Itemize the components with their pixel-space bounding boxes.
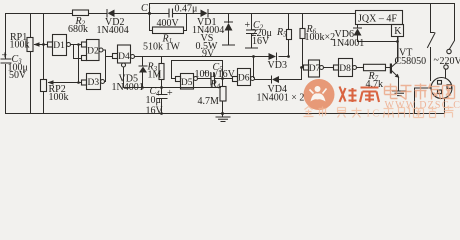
svg-text:D6: D6 — [238, 74, 250, 84]
socket outlet — [431, 78, 452, 99]
resistor R5 — [276, 14, 292, 57]
watermark text 全球最大IC采购网站 — [304, 107, 362, 118]
zener diode VS — [196, 14, 235, 60]
gate D4 — [113, 45, 135, 67]
wire: feedback link over D5 and C5 — [172, 61, 223, 79]
svg-text:50V: 50V — [9, 70, 27, 81]
ground — [216, 112, 230, 122]
svg-text:1M: 1M — [148, 70, 162, 81]
node: C4 on ground rail — [160, 112, 163, 115]
diode VD5 — [112, 57, 148, 94]
svg-text:D2: D2 — [87, 47, 99, 57]
svg-text:I C: I C — [367, 109, 380, 120]
terminal: mains input lower — [444, 65, 448, 78]
svg-text:VD3: VD3 — [268, 60, 287, 71]
resistor R1 parallel branch — [143, 14, 187, 53]
diode VD2 — [97, 10, 129, 37]
svg-text:JQX – 4F: JQX – 4F — [358, 13, 397, 24]
wire: left supply rail with gap for C3 — [5, 14, 7, 114]
svg-text:100k×2: 100k×2 — [305, 32, 336, 43]
resistor R4 — [198, 79, 227, 114]
gate D8 — [334, 59, 357, 77]
svg-text:D7: D7 — [309, 64, 321, 74]
svg-text:+: + — [2, 51, 8, 62]
gate D3 — [82, 74, 105, 90]
transistor VT — [390, 37, 426, 91]
wire: socket bottom lead — [444, 98, 446, 113]
wire: D4 output down to timing bus — [123, 67, 125, 88]
wire: RP1 wiper riser from rail down to RP2 — [43, 14, 45, 80]
watermark text WWW.DZSC.COM — [385, 100, 460, 111]
potentiometer RP2 — [41, 80, 79, 114]
gate D5 — [176, 74, 198, 90]
svg-text:D3: D3 — [88, 78, 100, 88]
wire: D2 out and D3 out to D4 input riser — [103, 50, 113, 82]
svg-text:16V: 16V — [252, 36, 270, 47]
svg-text:R5: R5 — [276, 27, 287, 39]
ground — [393, 91, 407, 96]
svg-text:400V: 400V — [157, 18, 180, 29]
svg-text:4.7M: 4.7M — [198, 96, 220, 107]
watermark text 电子市场网 — [385, 84, 455, 100]
svg-text:+: + — [245, 20, 251, 31]
label: mains voltage — [434, 55, 460, 67]
resistor R3 — [147, 57, 165, 88]
svg-text:R4: R4 — [210, 79, 221, 91]
svg-text:C58050: C58050 — [395, 56, 427, 67]
wire: logic bus from D4 to R5 leg — [135, 56, 289, 58]
node: VD3 tap — [252, 55, 255, 58]
wire: timing bus above ground — [124, 86, 221, 89]
capacitor C5 — [195, 62, 236, 86]
svg-text:1N4001: 1N4001 — [332, 38, 364, 49]
capacitor C3 — [1, 51, 28, 82]
wire: drop from bus to D6 output node — [253, 57, 255, 78]
relay coil K — [392, 25, 404, 38]
svg-text:1N4001 × 2: 1N4001 × 2 — [257, 93, 305, 104]
wire: mains feed line along top to right edge — [150, 4, 455, 50]
potentiometer RP1 — [10, 14, 44, 114]
svg-text:+: + — [167, 88, 173, 99]
capacitor C2 — [245, 14, 272, 49]
svg-text:1N4004: 1N4004 — [97, 25, 129, 36]
diode VD1 — [192, 10, 224, 37]
diode VD3 — [268, 53, 287, 71]
watermark text 维库 — [340, 87, 380, 103]
node: junction of C1 and mains feed — [148, 12, 151, 15]
node: R5 to bus — [287, 55, 290, 58]
svg-text:510k 1W: 510k 1W — [143, 42, 181, 53]
node: C5 output node — [221, 77, 224, 80]
gate D6 — [233, 69, 255, 86]
diode VD6 flyback — [332, 25, 398, 50]
svg-text:680k: 680k — [68, 24, 88, 35]
wire: D1 output to D2 input — [71, 44, 82, 46]
resistor R2 — [68, 10, 89, 35]
svg-text:220V: 220V — [440, 56, 460, 67]
resistor R6 — [300, 14, 335, 68]
wire: branch to D2 second input — [74, 45, 82, 59]
wire: D7 to D8 — [324, 67, 334, 69]
svg-text:D8: D8 — [339, 64, 351, 74]
gate D1 — [44, 35, 71, 56]
capacitor C4 — [146, 86, 174, 117]
svg-text:100k: 100k — [10, 40, 30, 51]
svg-text:10μ: 10μ — [146, 95, 161, 106]
wire: step up to D7 input — [302, 68, 304, 80]
wire: branch down to D3 input / RP2 wiper — [77, 43, 81, 84]
resistor R7 — [357, 64, 391, 90]
svg-text:9V: 9V — [202, 49, 215, 60]
wire: socket left lead to ground rail — [415, 88, 432, 114]
gate D2 — [82, 40, 104, 61]
svg-text:16V: 16V — [146, 106, 164, 117]
terminal: mains input upper — [447, 49, 451, 53]
wire: top positive rail segments — [6, 13, 356, 15]
svg-text:100k: 100k — [49, 92, 69, 103]
svg-text:D4: D4 — [118, 52, 130, 62]
svg-text:K: K — [394, 26, 402, 37]
node: D7 input junction — [300, 66, 303, 69]
svg-text:D5: D5 — [181, 78, 193, 88]
gate D7 — [304, 60, 324, 77]
watermark logo circle — [304, 79, 335, 110]
diode VD4 — [255, 76, 305, 104]
wire: bottom ground rail — [6, 113, 445, 115]
relay contact switch — [428, 4, 436, 81]
node: wiper junction — [42, 43, 45, 46]
relay JQX-4F outline — [356, 11, 403, 25]
wire: coil to collector — [396, 37, 399, 62]
capacitor C1 — [141, 3, 197, 18]
svg-text:D1: D1 — [53, 41, 65, 51]
svg-text:0.47μ: 0.47μ — [175, 4, 198, 15]
